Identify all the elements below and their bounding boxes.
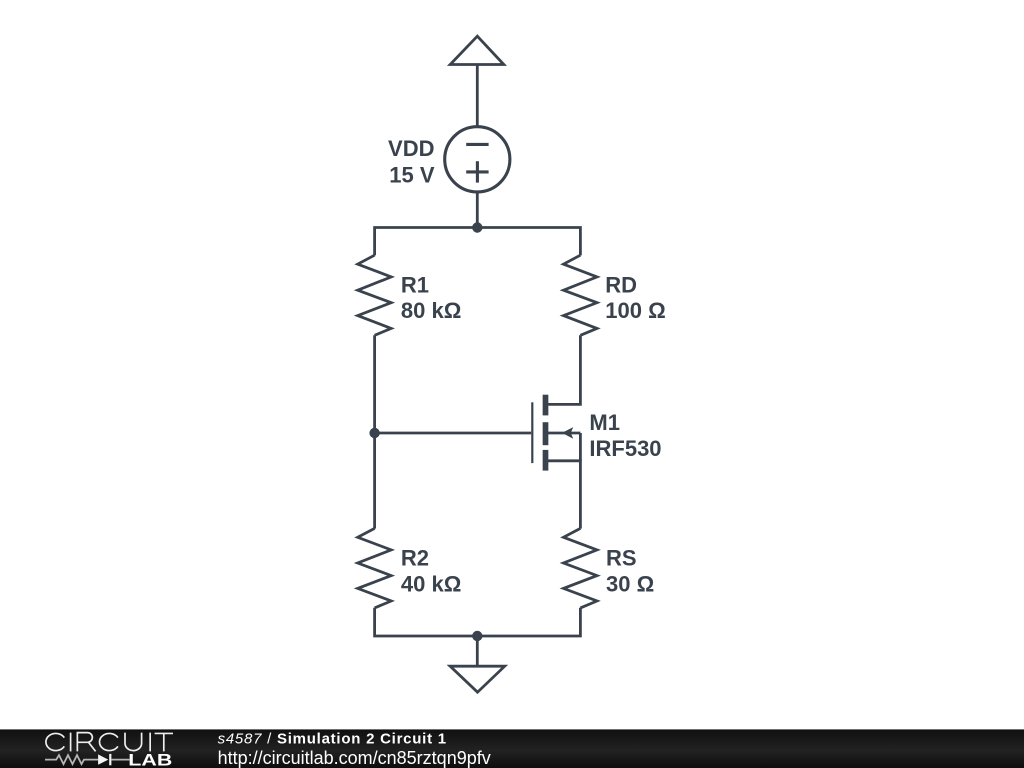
wire source to top rail <box>476 192 479 228</box>
plus sign <box>466 161 488 182</box>
svg-text:LAB: LAB <box>128 750 172 768</box>
letter C <box>100 733 118 750</box>
svg-text:s4587 / Simulation 2 Circuit 1: s4587 / Simulation 2 Circuit 1 <box>218 731 447 748</box>
svg-text:R2: R2 <box>401 546 429 571</box>
svg-text:M1: M1 <box>589 410 620 435</box>
wire source lead <box>546 461 581 529</box>
svg-text:RD: RD <box>605 272 637 297</box>
wire bottom rail <box>375 608 581 636</box>
wire RD to drain <box>546 335 581 404</box>
junction node gate <box>369 428 379 438</box>
wire R1 to gate node <box>373 335 376 433</box>
CircuitLab logo CIRCUIT <box>46 733 173 752</box>
resistor RD <box>564 255 598 335</box>
junction node bottom <box>472 631 482 641</box>
svg-text:80 kΩ: 80 kΩ <box>401 298 461 323</box>
svg-text:30 Ω: 30 Ω <box>606 572 654 597</box>
svg-text:IRF530: IRF530 <box>589 436 661 461</box>
transistor M1 bulk wire with arrow <box>548 427 580 461</box>
letter I <box>149 733 151 752</box>
letter U <box>125 733 142 751</box>
footer bar <box>0 729 1024 768</box>
logo squiggle resistor-diode <box>45 754 130 765</box>
wire flag to source <box>476 65 479 127</box>
letter T <box>155 733 173 751</box>
wire ground stem <box>476 636 479 666</box>
transistor M1 gate bar <box>531 402 533 463</box>
letter I <box>70 733 72 752</box>
wire top rail <box>375 228 581 256</box>
power flag VDD arrow <box>450 36 504 64</box>
ground symbol <box>450 666 505 692</box>
voltage source V1 circle <box>445 127 510 192</box>
svg-text:R1: R1 <box>401 272 429 297</box>
letter C <box>46 733 64 750</box>
letter R <box>77 733 95 752</box>
svg-text:100 Ω: 100 Ω <box>605 298 665 323</box>
svg-text:VDD: VDD <box>388 136 434 161</box>
wire gate node to R2 <box>373 433 376 529</box>
resistor R2 <box>358 528 392 608</box>
wire gate <box>375 432 532 435</box>
minus sign <box>466 143 488 146</box>
transistor M1 channel dashes <box>543 395 549 471</box>
resistor RS <box>564 528 598 608</box>
svg-text:40 kΩ: 40 kΩ <box>401 572 461 597</box>
junction node top <box>472 222 482 232</box>
svg-text:http://circuitlab.com/cn85rztq: http://circuitlab.com/cn85rztqn9pfv <box>218 748 491 768</box>
svg-text:RS: RS <box>606 546 637 571</box>
svg-text:15 V: 15 V <box>389 162 435 187</box>
resistor R1 <box>358 255 392 335</box>
